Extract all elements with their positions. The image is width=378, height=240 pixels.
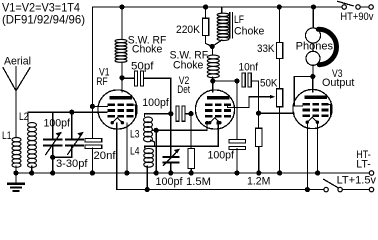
svg-text:50pf: 50pf <box>131 61 154 73</box>
wire regen W1 tap to V2 filament <box>156 123 207 130</box>
LF choke core <box>229 13 231 39</box>
node V3 filament earth junction <box>315 170 320 175</box>
capacitor 100pf grid <box>176 106 179 121</box>
wire L3 bottom stub <box>151 140 155 146</box>
wire V1 screen stub <box>92 105 107 107</box>
svg-text:Output: Output <box>322 77 354 89</box>
node L1 earth junction <box>13 170 18 175</box>
node 50K earth junction <box>277 170 282 175</box>
inductor L1 <box>12 138 21 142</box>
resistor 1.2M <box>258 113 260 128</box>
node V1 anode junction <box>119 75 124 80</box>
aerial symbol <box>3 68 16 138</box>
valve V3 grid tie bracket <box>328 104 331 116</box>
node top rail choke1 <box>119 4 124 9</box>
node reaction cap earth junction <box>168 170 173 175</box>
svg-text:100pf: 100pf <box>156 176 184 188</box>
svg-text:L4: L4 <box>130 146 140 158</box>
svg-text:100pf: 100pf <box>44 118 71 130</box>
svg-text:Choke: Choke <box>234 25 264 37</box>
node L3 tap <box>154 128 159 133</box>
node V2 anode junction <box>210 78 215 83</box>
choke S.W. RF choke 2 <box>211 46 213 54</box>
valve V2 envelope <box>195 90 234 129</box>
svg-text:1.5M: 1.5M <box>186 176 211 188</box>
svg-text:HT+90v: HT+90v <box>340 11 373 23</box>
choke LF choke <box>221 7 223 13</box>
wire to V3 grid <box>259 112 294 114</box>
node tuning cap earth junction <box>50 170 55 175</box>
svg-text:1.2M: 1.2M <box>247 176 270 188</box>
valve V2 filament <box>210 118 220 123</box>
node 100pf bypass earth junction <box>234 170 239 175</box>
wire V1 filament legs <box>116 123 118 190</box>
svg-text:L2: L2 <box>19 111 29 123</box>
switch S1 HT+ <box>338 1 353 5</box>
resistor 1.5M grid leak <box>190 114 192 149</box>
node L3 tap earth junction <box>154 170 159 175</box>
node V2 grid <box>188 111 193 116</box>
svg-text:(DF91/92/94/96): (DF91/92/94/96) <box>2 13 85 27</box>
node L4 LT junction <box>145 187 150 192</box>
node trimmer to tuning cap join <box>50 155 55 160</box>
valve V3 grids <box>303 103 311 106</box>
node V1 filament earth junction <box>124 170 129 175</box>
svg-text:220K: 220K <box>176 24 201 36</box>
node 100pf bypass junction <box>234 78 239 83</box>
phones symbol <box>312 7 314 28</box>
svg-text:RF: RF <box>96 76 108 88</box>
wire V3 screen loop <box>294 77 313 107</box>
valve V3 envelope <box>293 89 332 128</box>
valve V1 anode <box>109 96 132 99</box>
svg-text:20nf: 20nf <box>94 150 117 162</box>
node phones top <box>311 4 316 9</box>
switch S2 LT+ <box>324 179 339 188</box>
svg-text:Choke: Choke <box>132 44 162 56</box>
svg-text:3-30pf: 3-30pf <box>56 158 88 170</box>
svg-text:LT-: LT- <box>356 158 371 170</box>
capacitor 100pf anode bypass <box>236 81 238 141</box>
node LF choke bottom <box>210 44 215 49</box>
capacitor 50pf coupling <box>122 77 134 79</box>
svg-text:Aerial: Aerial <box>4 56 31 68</box>
wire LT+ rail <box>117 189 324 191</box>
wire earth HT- LT- rail <box>16 172 369 174</box>
resistor 33K <box>279 7 281 43</box>
wire L3 tap to earth rail <box>155 130 157 173</box>
node 1.5M earth junction <box>189 170 194 175</box>
node 3-30pf top junction <box>69 110 74 115</box>
svg-text:LF: LF <box>234 14 244 26</box>
node 33K top <box>277 4 282 9</box>
svg-text:L1: L1 <box>2 130 12 142</box>
svg-text:Phones: Phones <box>296 41 334 53</box>
svg-text:100pf: 100pf <box>208 150 235 162</box>
wire V2 screen to 50K wiper <box>228 97 272 108</box>
svg-text:Choke: Choke <box>173 59 203 71</box>
inductor L3 <box>144 117 153 123</box>
wire V2 anode to 10nf <box>213 80 237 82</box>
wire L4 to LT rail <box>146 166 148 190</box>
potentiometer 50K <box>276 89 282 107</box>
wire phones to V3 anode <box>312 77 314 93</box>
capacitor 10nf coupling <box>242 73 245 87</box>
wire detector grid circuit top <box>145 114 171 117</box>
svg-text:10nf: 10nf <box>239 62 259 74</box>
svg-text:100pf: 100pf <box>142 97 169 109</box>
node V3 filament LT junction <box>305 187 310 192</box>
svg-text:Det: Det <box>177 84 190 96</box>
svg-text:50K: 50K <box>260 78 278 90</box>
node 1.2M earth junction <box>256 170 261 175</box>
wire left screen-feed rail <box>91 7 93 138</box>
inductor L2 <box>28 112 107 122</box>
node 20nf earth junction <box>90 170 95 175</box>
inductor L4 reaction <box>144 148 154 153</box>
valve V2 grids <box>205 104 213 107</box>
svg-text:L3: L3 <box>130 129 140 141</box>
trimmer capacitor 3-30pf <box>71 112 73 139</box>
choke L5 S.W. RF choke 1 <box>121 7 123 39</box>
svg-text:LT+1.5v: LT+1.5v <box>337 175 377 187</box>
node detector top junction <box>168 111 173 116</box>
svg-text:33K: 33K <box>257 43 275 55</box>
valve V3 filament <box>307 117 317 122</box>
wire W3 L4 to V2 filament <box>145 123 218 148</box>
node V3 grid junction <box>256 111 261 116</box>
variable capacitor 100pf reaction <box>170 114 172 156</box>
ground symbol <box>15 173 17 184</box>
valve V1 envelope <box>98 90 137 129</box>
valve V1 filament <box>112 118 122 123</box>
variable capacitor 100pf tuning <box>52 112 54 139</box>
valve V1 grid tie bracket <box>133 105 136 117</box>
valve V1 grids <box>108 104 116 107</box>
node V1 screen junction <box>90 104 95 109</box>
capacitor 20nf <box>85 139 102 142</box>
node 220K top <box>203 4 208 9</box>
wire HT+ top rail <box>92 6 342 8</box>
valve V2 anode <box>207 96 230 99</box>
wire V3 filament legs <box>306 122 308 189</box>
resistor 220K <box>205 7 207 18</box>
node L2 earth junction <box>29 170 34 175</box>
valve V3 anode <box>304 96 327 99</box>
node V3 anode junction <box>310 74 315 79</box>
